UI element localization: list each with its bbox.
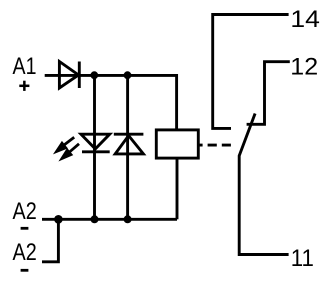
svg-text:A2: A2 (13, 240, 37, 266)
svg-text:A2: A2 (13, 199, 37, 225)
svg-text:14: 14 (290, 6, 320, 33)
svg-text:12: 12 (290, 54, 318, 81)
svg-text:11: 11 (291, 245, 314, 272)
svg-text:A1: A1 (13, 54, 37, 80)
